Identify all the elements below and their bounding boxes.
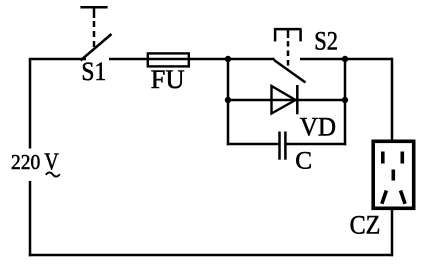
switch S2 pushbutton actuator: [274, 29, 302, 68]
label CZ: [350, 210, 381, 240]
svg-text:S1: S1: [81, 56, 106, 86]
label S1: [81, 56, 106, 86]
svg-text:S2: S2: [314, 26, 338, 56]
wire: diode branch horizontal: [228, 99, 345, 102]
switch S2 blade: [274, 60, 306, 83]
wire: S1 to fuse FU: [109, 58, 148, 61]
wire: S2 right contact to top-right corner: [300, 58, 392, 61]
switch S1 blade: [81, 34, 112, 61]
wire: left branch vertical (node A down to capacitor branch): [227, 59, 230, 145]
wire: left vertical lower segment: [29, 181, 32, 256]
junction dot (left, diode branch): [225, 97, 231, 103]
junction dot (right, diode branch): [342, 97, 348, 103]
wire: fuse to S2 left contact (through node A): [189, 58, 275, 61]
wire: top-right vertical down to socket: [391, 58, 394, 140]
wire: capacitor branch left: [227, 143, 279, 146]
svg-text:FU: FU: [151, 64, 185, 94]
wire: left vertical upper segment: [29, 59, 32, 149]
node A junction dot: [225, 56, 231, 62]
node B junction dot: [342, 56, 348, 62]
svg-text:CZ: CZ: [350, 210, 381, 240]
socket CZ: [373, 141, 414, 208]
svg-text:C: C: [295, 148, 312, 175]
svg-text:VD: VD: [300, 112, 336, 142]
capacitor C: [280, 132, 286, 160]
wire: right branch vertical (node B down to capacitor branch): [344, 59, 347, 145]
wire: capacitor branch right: [286, 143, 346, 146]
wire: socket bottom lead: [391, 210, 394, 256]
label C: [295, 148, 312, 175]
switch S1 actuator (T-bar with dashed mechanical link): [80, 7, 107, 48]
diode VD: [272, 85, 298, 114]
svg-text:220: 220: [11, 150, 40, 174]
svg-text:V: V: [44, 150, 59, 176]
label 220V source: [11, 150, 60, 177]
label FU: [151, 64, 185, 94]
wire: bottom horizontal: [29, 254, 393, 257]
label VD: [300, 112, 336, 142]
wire: top-left horizontal (to S1 pivot): [29, 58, 86, 61]
label S2: [314, 26, 338, 56]
fuse FU: [148, 53, 189, 66]
